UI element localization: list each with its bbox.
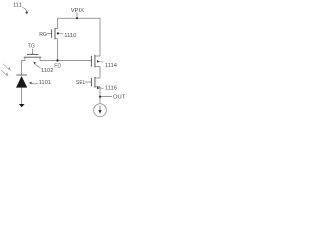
svg-text:OUT: OUT (113, 95, 126, 101)
svg-text:1101: 1101 (39, 80, 51, 86)
svg-text:TG: TG (28, 43, 35, 49)
svg-text:1114: 1114 (105, 63, 118, 69)
svg-text:RG: RG (39, 32, 47, 38)
svg-text:111: 111 (13, 2, 22, 8)
svg-text:1102: 1102 (41, 68, 53, 74)
svg-text:SEL: SEL (76, 80, 86, 86)
svg-text:1116: 1116 (105, 86, 117, 92)
svg-text:VPIX: VPIX (71, 8, 84, 14)
svg-text:1110: 1110 (64, 33, 76, 39)
svg-text:FD: FD (54, 64, 61, 70)
